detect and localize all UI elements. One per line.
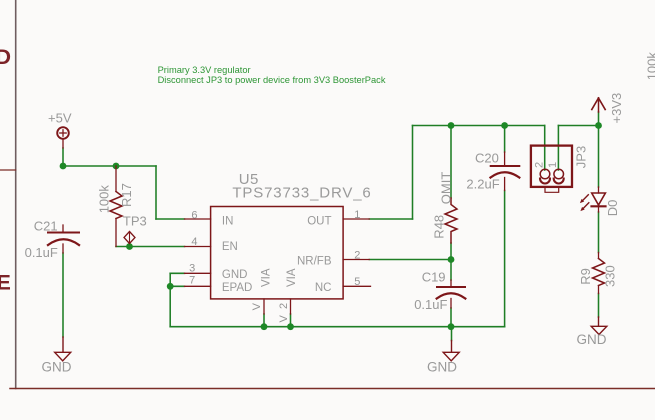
svg-text:TP3: TP3 (123, 214, 147, 229)
svg-text:E: E (0, 270, 11, 294)
svg-text:+3V3: +3V3 (609, 93, 624, 124)
svg-text:C19: C19 (422, 270, 446, 285)
svg-text:OUT: OUT (307, 215, 331, 227)
svg-text:EPAD: EPAD (222, 282, 252, 294)
svg-text:VIA: VIA (286, 268, 298, 287)
svg-text:1: 1 (547, 162, 559, 168)
svg-text:V: V (251, 302, 263, 310)
svg-text:3: 3 (189, 262, 195, 274)
svg-text:C21: C21 (34, 218, 58, 233)
svg-text:GND: GND (222, 269, 248, 281)
svg-text:+5V: +5V (48, 110, 72, 125)
svg-text:R9: R9 (578, 268, 593, 285)
svg-text:JP3: JP3 (574, 146, 589, 168)
svg-text:4: 4 (191, 236, 197, 248)
svg-text:7: 7 (189, 275, 195, 287)
svg-text:2.2uF: 2.2uF (466, 177, 499, 192)
svg-text:1: 1 (354, 209, 360, 221)
svg-text:V: V (278, 315, 290, 323)
svg-text:GND: GND (427, 359, 457, 374)
svg-text:R17: R17 (119, 183, 134, 207)
svg-text:D0: D0 (605, 200, 620, 217)
svg-text:GND: GND (577, 332, 607, 347)
svg-text:2: 2 (534, 162, 546, 168)
svg-text:OMIT: OMIT (439, 172, 454, 205)
svg-text:2: 2 (354, 249, 360, 261)
svg-text:GND: GND (42, 359, 72, 374)
svg-text:2: 2 (278, 303, 290, 309)
svg-text:D: D (0, 45, 11, 69)
svg-text:100k: 100k (645, 52, 655, 81)
svg-text:330: 330 (603, 265, 618, 287)
svg-text:VIA: VIA (260, 268, 272, 287)
svg-text:IN: IN (222, 215, 234, 227)
svg-text:Disconnect JP3 to power device: Disconnect JP3 to power device from 3V3 … (158, 75, 386, 85)
svg-text:C20: C20 (475, 150, 499, 165)
svg-text:Primary 3.3V regulator: Primary 3.3V regulator (158, 65, 251, 75)
svg-text:NC: NC (315, 282, 332, 294)
svg-text:NR/FB: NR/FB (297, 256, 332, 268)
svg-text:0.1uF: 0.1uF (414, 297, 447, 312)
svg-text:6: 6 (191, 209, 197, 221)
svg-text:100k: 100k (96, 185, 111, 214)
svg-text:TPS73733_DRV_6: TPS73733_DRV_6 (232, 184, 371, 201)
svg-text:0.1uF: 0.1uF (25, 245, 58, 260)
svg-text:5: 5 (354, 276, 360, 288)
svg-text:EN: EN (222, 241, 238, 253)
svg-text:R48: R48 (431, 215, 446, 239)
